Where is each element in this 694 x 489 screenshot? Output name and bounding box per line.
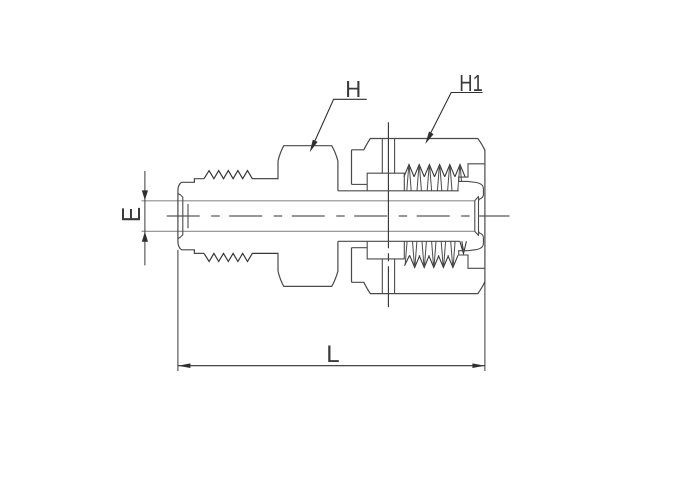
dimension L extension left: [177, 250, 179, 371]
dimension L line: [178, 365, 485, 367]
dimension E arrow lower: [142, 232, 148, 242]
nut wall lines lower: [382, 259, 394, 294]
nut left face upper: [351, 150, 353, 185]
male thread zigzag top: [204, 171, 278, 179]
opening lip bottom: [468, 231, 483, 250]
bore entry chamfer rings: [475, 197, 479, 236]
ferrule box lower: [367, 241, 404, 259]
dimension E arrow upper: [142, 190, 148, 200]
counterbore mask upper right: [459, 182, 484, 200]
bore line top: [142, 200, 475, 202]
male thread zigzag bottom: [204, 253, 278, 261]
dimension L arrow left: [178, 363, 191, 368]
engaged thread legs lower: [405, 241, 455, 265]
dimension L extension right: [484, 282, 486, 371]
flare cone outer edge with hooks: [178, 193, 183, 238]
nut wall lines upper: [382, 139, 394, 174]
dimension L arrow right: [472, 363, 485, 368]
opening lip top: [468, 181, 483, 200]
nut bore lip bottom: [352, 247, 368, 249]
engaged thread teeth lower: [405, 255, 459, 267]
leader arrow H: [310, 140, 318, 153]
hex outline top: [278, 146, 338, 191]
male end bead bottom edge: [182, 250, 205, 254]
engaged thread legs upper: [407, 166, 462, 190]
nut bore lip top: [352, 183, 368, 185]
nut internal step lower right: [459, 251, 485, 269]
dimension E line: [144, 171, 146, 265]
flare cone inner edge: [187, 204, 189, 228]
hex left face: [277, 161, 279, 271]
horizontal centerline: [167, 215, 510, 217]
partial thread tooth lower right: [460, 241, 467, 253]
nut internal step upper right: [459, 164, 485, 182]
bore entry chamfer diagonals: [475, 196, 479, 236]
male end bead top edge: [182, 179, 205, 183]
male end left face: [178, 182, 182, 250]
vertical centerline at ferrule plane: [387, 122, 389, 307]
leader line H: [312, 99, 367, 148]
hex outline bottom: [278, 241, 338, 286]
svg-text:E: E: [118, 207, 146, 222]
svg-text:H1: H1: [459, 70, 483, 96]
bore line bottom: [142, 230, 475, 232]
leader arrow H1: [425, 132, 433, 145]
body neck line bottom: [338, 240, 460, 242]
svg-text:H: H: [345, 76, 361, 102]
nut left face lower: [351, 248, 353, 283]
engaged thread teeth upper: [404, 165, 465, 177]
ferrule box upper: [367, 173, 404, 191]
body neck line top: [338, 190, 459, 192]
svg-text:L: L: [326, 341, 339, 368]
leader line H1: [427, 93, 482, 140]
nut outline: [352, 139, 485, 294]
